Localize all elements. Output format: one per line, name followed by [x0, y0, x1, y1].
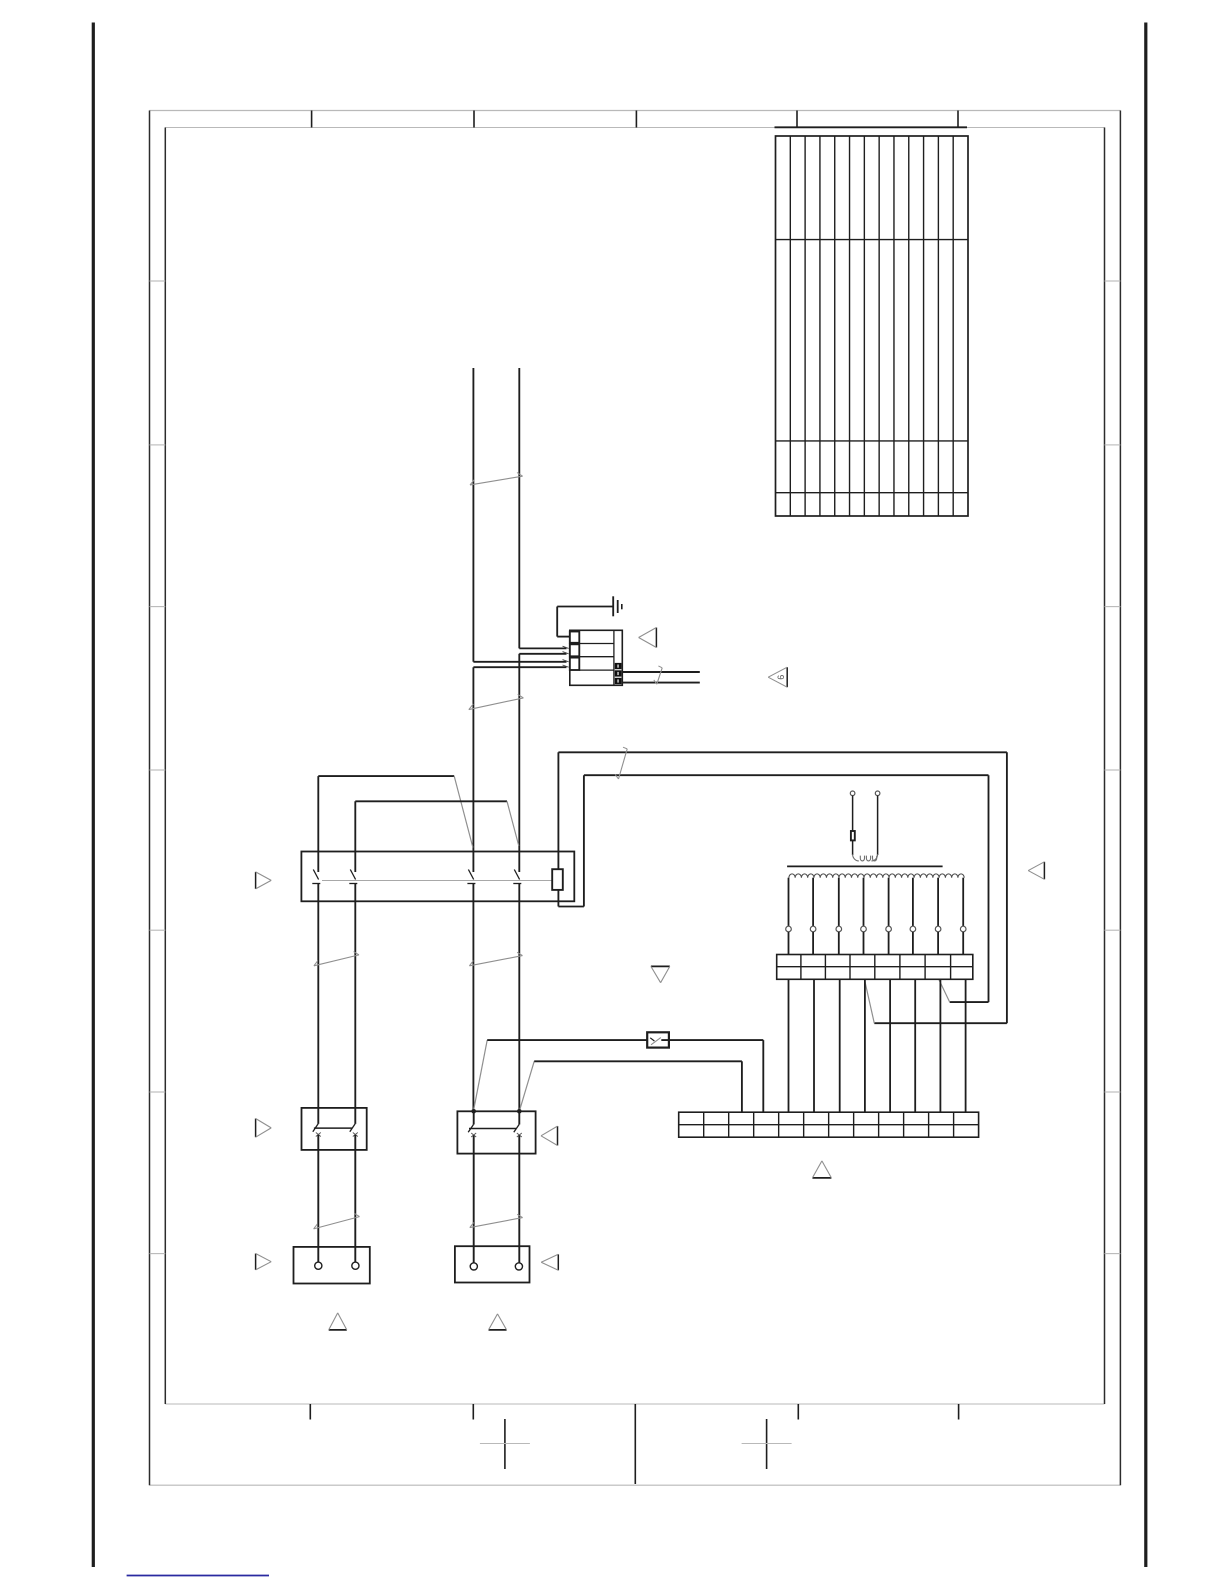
twist symbol on CN1 pair — [654, 666, 662, 684]
twist symbol left pair — [314, 952, 359, 966]
long connector CN2 body — [301, 852, 574, 902]
inner loop wire — [584, 775, 989, 1002]
tap terminal circles — [786, 926, 966, 932]
junction dot left — [471, 1109, 476, 1114]
inner drawing frame — [165, 128, 1104, 1405]
down triangle note above strip — [651, 966, 670, 982]
twist symbol CN6 pair — [470, 1214, 523, 1227]
T1 primary coil — [853, 854, 878, 861]
CN4 lower wires — [318, 1135, 355, 1262]
top border zone ticks — [312, 111, 958, 128]
wire vertical left lead — [472, 368, 474, 1111]
dark segment of inner frame above table — [775, 126, 968, 128]
CN2 internal contact line — [322, 880, 552, 882]
bottom border zone ticks — [310, 1404, 958, 1484]
revision table grid — [776, 136, 969, 516]
flag lower-left connector — [256, 1254, 272, 1270]
registration cross left — [480, 1419, 530, 1469]
transformer terminal strip — [777, 955, 973, 980]
second branch wire — [519, 1061, 742, 1112]
twist symbol upper cable — [470, 473, 523, 485]
wire under long connector — [558, 890, 584, 907]
footer link underline — [127, 1575, 269, 1577]
CN1 terminal squares — [615, 663, 622, 684]
T1 primary wires — [853, 796, 878, 855]
wire vertical right lead — [518, 368, 520, 1111]
connector CN1 body — [570, 630, 623, 685]
wire pair to connector pin 2 — [519, 648, 566, 653]
wire pair out of CN1 — [622, 672, 700, 683]
flag upper-middle connector — [541, 1126, 558, 1145]
twist symbol on loop wires — [615, 747, 627, 779]
branch wire to inline connector — [473, 1040, 763, 1112]
T1 core — [787, 865, 943, 867]
delta note below CN7 — [489, 1314, 507, 1330]
right border zone ticks — [1105, 281, 1121, 1254]
twist symbol mid cable — [469, 694, 524, 709]
flag upper-left connector — [256, 1119, 272, 1138]
main connector strip CN3 — [679, 1112, 979, 1137]
CN2 lower wires left pair — [318, 884, 355, 1108]
flag near transformer — [1028, 862, 1044, 880]
transformer T1 primary terminal A — [850, 791, 855, 796]
svg-text:6: 6 — [776, 675, 786, 680]
T1 secondary coil — [789, 874, 964, 878]
wire pair to connector pin 3 — [473, 662, 566, 667]
inline connector box — [647, 1032, 669, 1047]
strip output wires to main connector — [789, 979, 966, 1112]
outer loop wire — [558, 752, 1007, 1023]
flag 4 near CN1 — [639, 628, 657, 648]
flag near long connector — [256, 872, 272, 889]
left page margin bar — [92, 23, 95, 1568]
lower-left connector CN5 — [294, 1247, 370, 1284]
delta note below strip — [812, 1161, 831, 1178]
fuse on T1 primary — [851, 831, 855, 840]
connector CN1 pin 1 — [570, 632, 580, 643]
connector CN1 pin 3 — [570, 658, 580, 670]
transformer T1 primary terminal B — [875, 791, 880, 796]
flag 6 on CN1 pair — [768, 667, 787, 687]
CN6 lower wires — [474, 1135, 520, 1262]
right page margin bar — [1144, 23, 1147, 1568]
twist symbol middle pair — [469, 952, 522, 966]
left border zone ticks — [150, 281, 166, 1254]
junction dot right — [517, 1109, 522, 1114]
ground symbol — [557, 596, 622, 616]
wire ground to pin1 — [557, 607, 570, 637]
upper-left connector CN4 — [302, 1108, 367, 1150]
twist symbol CN4 pair — [314, 1213, 360, 1229]
T1 secondary taps — [789, 878, 964, 926]
wire B pin2 to lead4 — [355, 801, 519, 872]
CN1 pin arrows — [563, 646, 569, 667]
flag lower-middle connector — [541, 1254, 558, 1270]
outer drawing frame — [150, 111, 1121, 1486]
delta note below CN5 — [329, 1313, 347, 1330]
registration cross right — [742, 1419, 792, 1469]
connector CN1 pin 2 — [570, 644, 580, 656]
wire A pin1 to lead3 — [318, 776, 473, 872]
lower-middle connector CN7 — [455, 1246, 530, 1282]
tap wires to terminal strip — [789, 932, 964, 955]
upper-middle connector CN6 — [457, 1111, 535, 1153]
component in CN2 — [552, 869, 563, 890]
CN2 pin contacts — [312, 870, 521, 884]
